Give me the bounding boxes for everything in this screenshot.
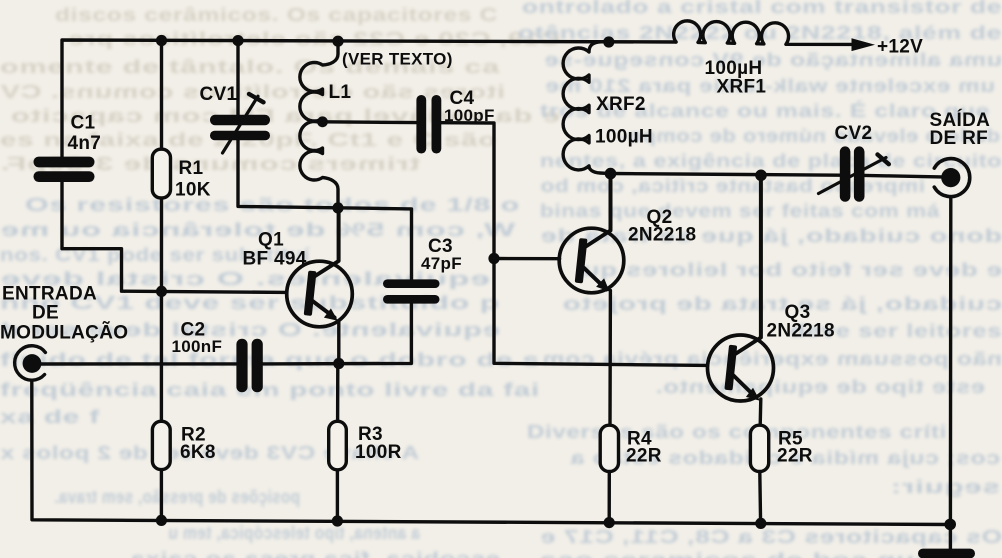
svg-text:22R: 22R: [777, 446, 813, 467]
svg-text:(VER TEXTO): (VER TEXTO): [342, 50, 453, 69]
svg-text:Os capacitores C3 a C8, C11, C: Os capacitores C3 a C8, C11, C17 e: [540, 527, 1002, 547]
svg-text:CV2: CV2: [835, 123, 873, 144]
svg-text:este tipo de equipamento.: este tipo de equipamento.: [655, 377, 985, 397]
svg-text:2N2218: 2N2218: [767, 321, 835, 342]
svg-text:XRF2: XRF2: [596, 94, 646, 115]
svg-text:100R: 100R: [355, 442, 402, 463]
svg-text:Diversos são os componentes cr: Diversos são os componentes críti: [527, 422, 947, 442]
svg-text:47pF: 47pF: [421, 254, 462, 273]
svg-text:impresso bastante crítica, com: impresso bastante crítica, com bo: [540, 176, 925, 196]
svg-text:seguir:: seguir:: [890, 477, 1000, 497]
svg-text:posições de pressão, sem trava: posições de pressão, sem trava.: [54, 487, 300, 507]
svg-text:DE: DE: [32, 303, 59, 324]
svg-text:Os resistores são todos de 1/8: Os resistores são todos de 1/8 o: [25, 195, 520, 215]
svg-text:um excelente walk-talkie para: um excelente walk-talkie para 210 me: [545, 76, 995, 96]
svg-text:e deve ser feito bor leilores: e deve ser feito bor leilores qu: [582, 260, 1002, 280]
svg-text:DE RF: DE RF: [930, 128, 989, 149]
svg-text:discos cerâmicos. Os capacitor: discos cerâmicos. Os capacitores C: [55, 5, 498, 25]
svg-text:CV1: CV1: [200, 84, 238, 105]
svg-text:cuidado, já se trata de projet: cuidado, já se trata de projeto: [562, 294, 1002, 314]
svg-text:escobica, fica presa ao caixa: escobica, fica presa ao caixa: [129, 549, 500, 558]
svg-text:100µH: 100µH: [595, 127, 653, 148]
svg-text:6K8: 6K8: [180, 442, 216, 463]
svg-text:BF 494: BF 494: [243, 249, 307, 270]
svg-text:XRF1: XRF1: [717, 77, 767, 98]
svg-text:C1: C1: [71, 113, 96, 134]
svg-text:itores são eletrolíticos comun: itores são eletrolíticos comuns. CV: [0, 82, 505, 102]
svg-text:10K: 10K: [175, 180, 211, 201]
svg-text:Q1: Q1: [258, 230, 284, 251]
svg-text:binas que devem ser feitas com: binas que devem ser feitas com má: [540, 201, 941, 221]
svg-text:100pF: 100pF: [444, 106, 495, 125]
svg-text:L1: L1: [329, 82, 352, 103]
svg-text:100nF: 100nF: [172, 337, 223, 356]
svg-text:R1: R1: [179, 158, 204, 179]
svg-text:xa de f: xa de f: [0, 407, 101, 427]
svg-text:uma alimentação de 9V consegue: uma alimentação de 9V consegue-se: [544, 50, 1002, 70]
svg-text:ENTRADA: ENTRADA: [2, 284, 97, 305]
svg-text:freqüência caia em ponto livre: freqüência caia em ponto livre da fai: [0, 380, 540, 400]
svg-text:2N2218: 2N2218: [628, 225, 696, 246]
svg-text:MODULAÇÃO: MODULAÇÃO: [0, 322, 128, 344]
svg-text:+12V: +12V: [877, 37, 923, 58]
svg-text:fluido de tal forma que o dobr: fluido de tal forma que o dobro de s: [0, 350, 540, 370]
svg-text:ontrolado a cristal com transi: ontrolado a cristal com transistor de: [522, 0, 1002, 17]
svg-text:4n7: 4n7: [68, 133, 102, 154]
svg-text:a antena, tipo telescópica, te: a antena, tipo telescópica, tem u: [168, 523, 420, 543]
svg-text:sao ceramicos de boa qualid: sao ceramicos de boa qualid: [540, 550, 970, 558]
svg-text:22R: 22R: [626, 446, 662, 467]
